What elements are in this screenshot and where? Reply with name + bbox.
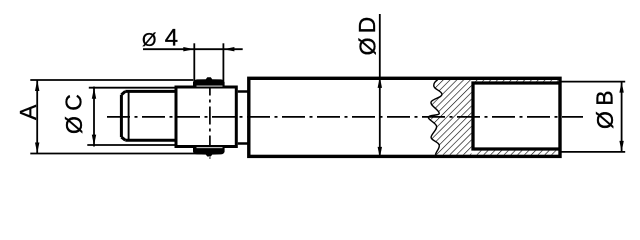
dim dia B arrow down [619, 141, 623, 152]
dim A extension line bottom [30, 153, 217, 155]
svg-text:Ø: Ø [142, 29, 156, 50]
stud thread outline [121, 91, 176, 140]
dim A arrow down [35, 143, 39, 154]
o-ring dome bottom [193, 148, 225, 157]
collar body [176, 87, 236, 147]
svg-text:B: B [592, 90, 618, 105]
dim A arrow up [35, 80, 39, 91]
o-ring seat line top (white sliver) [197, 85, 223, 87]
o-ring seat line bottom (white sliver) [197, 147, 223, 149]
centerline collar vertical [209, 78, 211, 159]
thread major line top (also ext line for dim C) [89, 87, 176, 89]
main body outline [249, 78, 560, 156]
neck between collar and body [238, 92, 249, 144]
dim dia B extension line bottom [559, 151, 625, 153]
svg-text:D: D [354, 17, 380, 34]
dim dia B line [621, 82, 623, 152]
dim A line [36, 80, 38, 154]
dim dia4 extension line left [193, 43, 195, 81]
dim dia4 extension line right [222, 43, 224, 81]
thread major line bottom (also ext line for dim C) [87, 144, 176, 146]
dim dia D line [379, 14, 381, 158]
dim C arrow up [92, 88, 96, 99]
dim C arrow down [92, 135, 96, 146]
svg-text:Ø: Ø [592, 111, 618, 129]
hatch band above bore [475, 80, 558, 82]
dim dia B extension line top [559, 81, 625, 83]
dim dia4 arrow left-pointing [223, 47, 234, 51]
dim dia B arrow up [619, 82, 623, 93]
o-ring dome top [193, 77, 225, 86]
stud chamfer line [128, 93, 130, 140]
bore outline [473, 83, 560, 149]
svg-text:A: A [15, 104, 41, 120]
svg-text:C: C [60, 94, 86, 111]
dim dia4 dimension line [143, 48, 243, 50]
svg-text:Ø: Ø [61, 116, 87, 134]
centerline main horizontal [107, 116, 583, 118]
dim dia D arrow down [378, 147, 382, 158]
dim dia4 arrow right-pointing [183, 47, 194, 51]
svg-text:Ø: Ø [354, 37, 380, 55]
hatch section left of bore [428, 80, 471, 155]
dim A extension line top [30, 79, 193, 81]
hatch band below bore [475, 151, 558, 155]
break (zigzag) line [428, 80, 442, 155]
svg-text:4: 4 [165, 24, 178, 51]
dim dia D arrow up [378, 77, 382, 88]
dim C line [93, 87, 95, 147]
